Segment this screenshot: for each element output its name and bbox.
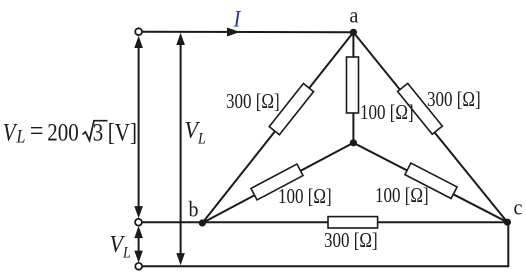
wire: b-c horizontal line from middle terminal through b to c bbox=[142, 221, 508, 223]
value label: 300 ohm (side a-c) bbox=[427, 89, 481, 110]
label: VL (small arrow) bbox=[110, 232, 131, 262]
resistor 300 ohm on side a-c bbox=[398, 83, 443, 134]
label: node c bbox=[514, 197, 523, 219]
current arrow I on top wire bbox=[227, 28, 240, 37]
resistor 100 ohm on branch n-b bbox=[251, 164, 303, 200]
terminal circle top-left bbox=[135, 28, 142, 35]
label: current I bbox=[234, 8, 241, 31]
wire: delta side a-b bbox=[202, 32, 353, 223]
value label: 300 ohm (line b-c) bbox=[324, 230, 378, 251]
node n junction dot (wye center) bbox=[350, 139, 357, 146]
resistor 300 ohm on line b-c bbox=[328, 217, 378, 228]
value label: 100 ohm (branch a-n) bbox=[360, 102, 414, 123]
value label: 100 ohm (branch n-c) bbox=[375, 185, 429, 206]
annotation arrow: VL tall double arrow at x=180.2 bbox=[176, 33, 185, 265]
label: VL (tall arrow) bbox=[185, 118, 206, 148]
wire: n to b bbox=[202, 143, 353, 223]
wire: right vertical from c down to bottom line bbox=[507, 222, 509, 267]
resistor 100 ohm on branch n-c bbox=[405, 163, 457, 198]
value label: 100 ohm (branch n-b) bbox=[278, 186, 332, 207]
resistor 300 ohm on side a-b bbox=[269, 84, 313, 135]
resistor 100 ohm on branch a-n (vertical) bbox=[347, 57, 359, 113]
annotation arrow: VL = 200 sqrt3 V double arrow at x=138.6 bbox=[134, 36, 143, 219]
wire: delta side a-c bbox=[353, 32, 507, 222]
label: node a bbox=[350, 5, 359, 27]
node c junction dot bbox=[504, 219, 511, 226]
wire: n to c bbox=[353, 143, 507, 222]
label: VL = 200 sqrt(3) [V] equation bbox=[3, 120, 16, 145]
node a junction dot bbox=[350, 29, 357, 36]
wire: top line from left terminal to node a bbox=[142, 31, 354, 34]
wire: bottom line from bottom terminal to right corner bbox=[142, 265, 508, 267]
label: node b bbox=[189, 199, 199, 221]
terminal circle bottom-left bbox=[135, 263, 142, 270]
node b junction dot bbox=[199, 219, 206, 226]
annotation arrow: VL small double arrow between lower terminals bbox=[134, 226, 143, 263]
terminal circle middle-left bbox=[135, 219, 142, 226]
value label: 300 ohm (side a-b) bbox=[226, 91, 280, 112]
wire: a to center node n bbox=[352, 32, 354, 143]
